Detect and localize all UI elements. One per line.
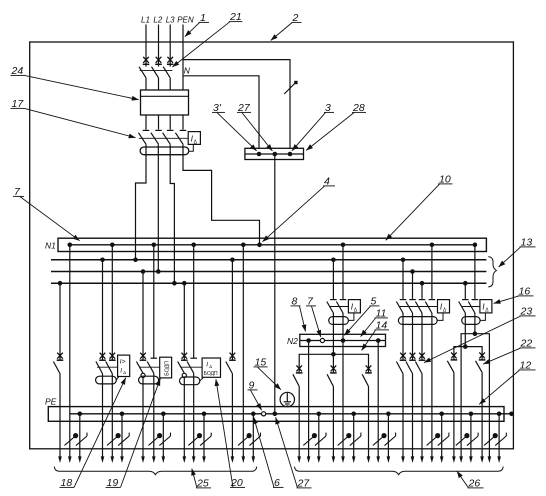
callout 14 (sub bar) (362, 320, 389, 351)
load arrow group4 L (183, 456, 187, 463)
node group4 L tap on L3 bus (182, 281, 187, 286)
wire PEN upper branch to link (183, 60, 290, 149)
wire RCD8 L drop (332, 260, 334, 299)
RCBO 18 linkage (97, 366, 118, 368)
wire L drop (464, 283, 466, 299)
phase busbar line L2 (51, 271, 486, 273)
svg-text:N: N (184, 65, 191, 75)
plug symbol N (484, 434, 497, 446)
wire N out of RCD jog to N1 (183, 144, 260, 245)
load arrow group4 N (192, 456, 196, 463)
outgoing group 4: switch + I-delta BODP device (178, 243, 221, 464)
callout 3 (bus 3 right node) (292, 102, 334, 151)
svg-text:L1: L1 (141, 16, 150, 25)
node PE to enclosure (509, 412, 514, 417)
linkage (462, 306, 480, 308)
blades (396, 302, 403, 314)
svg-text:L3: L3 (166, 16, 175, 25)
load arrows (480, 456, 484, 463)
sub distribution bar 14 (299, 352, 368, 373)
RCD8 linkage (330, 306, 348, 308)
node RCD8 L tap on L1 bus (331, 258, 336, 263)
busbar N2 (287, 334, 386, 346)
toroid (398, 317, 437, 325)
wire group3 PE drop (162, 414, 164, 457)
RCD8 box-to-toroid wire (348, 313, 354, 321)
callout 21 (main switch) (172, 11, 242, 67)
wire L3 to meter (169, 78, 171, 90)
wire L2 incoming (158, 25, 160, 67)
node group5 PE tap (251, 412, 256, 417)
brace left outgoing section (54, 467, 256, 475)
load arrow group3 PE (162, 456, 166, 463)
load arrows (367, 456, 371, 463)
load arrows (452, 456, 456, 463)
busbar N1 (58, 238, 486, 251)
wire group1 L drop (59, 283, 61, 360)
wire group5 N drop (242, 245, 244, 457)
plug symbol PE (315, 433, 326, 446)
switch blade group5 (226, 362, 233, 374)
load arrow group2 N (111, 456, 115, 463)
disconnect contact on L3 (167, 57, 174, 65)
node group1 PE tap (78, 412, 83, 417)
plug symbol N (338, 434, 351, 446)
switch blade (293, 374, 299, 386)
main RCD 17 toroid (140, 147, 189, 155)
callout 7 lower (N2 link circle) (306, 296, 321, 337)
node group5 N tap on N1 (241, 243, 246, 248)
node on bus 3 right (288, 152, 293, 157)
callout 27 lower (PE node) (276, 417, 312, 489)
N output (431, 313, 433, 457)
wire RCD8 N drop (342, 245, 344, 299)
wire group1 N drop (69, 245, 71, 457)
svg-text:БОДП: БОДП (165, 361, 171, 376)
wire L drop (481, 372, 483, 456)
node group2 L tap on L1 bus (100, 258, 105, 263)
svg-text:N1: N1 (45, 240, 56, 250)
RCD group 16 (2-pole right) (459, 243, 492, 347)
pole ticks (400, 299, 407, 301)
wire L drop (453, 372, 455, 456)
plug symbol group3 PE (159, 433, 170, 446)
callout 13 (phase lines brace) (499, 237, 536, 268)
node PE tap (439, 412, 444, 417)
main switch QS1 linkage (140, 70, 173, 72)
callout 10 (N1 bus right) (386, 174, 453, 241)
wire PE drop (498, 414, 500, 457)
disconnect contact group2 L (99, 353, 106, 361)
node group1 N tap on N1 (68, 243, 73, 248)
blades (459, 302, 466, 314)
load arrows (332, 456, 336, 463)
detachable link 21' on PE riser (284, 82, 296, 94)
load arrow group1 N (68, 456, 72, 463)
node group4 PE tap (202, 412, 207, 417)
wire group3 N drop (153, 245, 155, 358)
outgoing group 2: RCBO circuit (96, 243, 130, 464)
N bar of right group (461, 331, 489, 346)
plug symbol N (303, 434, 316, 446)
disconnect contact group3 L (140, 353, 147, 361)
L2 output with contact and blade (412, 313, 414, 360)
node PE tap (351, 412, 356, 417)
plug symbol N (373, 434, 386, 446)
plug symbol N (427, 434, 440, 446)
callout 11 (N2 conductor) (361, 308, 388, 337)
switch blade group1 (53, 362, 60, 374)
main earthing terminal 15 (280, 392, 294, 406)
callout 3' (bus 3 left node) (212, 102, 257, 151)
meter 24 (141, 90, 189, 115)
svg-text:I: I (206, 362, 208, 369)
toroid group3 (139, 376, 159, 384)
node L3 feed (172, 281, 177, 286)
wire L3 incoming (169, 25, 171, 67)
node N feed on N1 (257, 243, 262, 248)
sub outgoing group N2-2 (327, 341, 361, 464)
outgoing group 5: plain switched line (226, 243, 261, 464)
node L1 feed (133, 258, 138, 263)
BODP box 19 (160, 357, 172, 378)
sub outgoing group N2-1 (293, 341, 326, 464)
node L tap on L3 bus (463, 281, 468, 286)
plug symbol group2 N (107, 434, 120, 446)
load arrow group2 PE (120, 456, 124, 463)
contact tick group3 N (151, 357, 158, 359)
phase busbar line L1 (51, 259, 486, 261)
L3 output with contact and blade (421, 313, 423, 360)
wire L drop (298, 386, 300, 456)
disconnect contact (365, 365, 372, 373)
node on bar 14 (331, 352, 336, 357)
wire group4 N drop (193, 245, 195, 358)
svg-text:I>: I> (120, 359, 126, 366)
wire meter to RCD pole1 (145, 115, 147, 130)
wire L1 drop (402, 260, 404, 299)
node on L bar (463, 344, 468, 349)
node PE tap (497, 412, 502, 417)
callout 2 (enclosure) (271, 12, 302, 40)
wire N output to bar (474, 313, 476, 334)
load arrow group2 L (101, 456, 105, 463)
sub outgoing group N2-3 (362, 341, 395, 464)
L1 output with contact and blade (402, 313, 404, 360)
wire group5 PE drop (252, 414, 254, 457)
callout 22 (switch blade) (483, 338, 535, 365)
wire N drop (488, 346, 490, 457)
callout 17 (main RCD) (11, 98, 136, 138)
switch 19 linkage (139, 366, 160, 368)
node PE tap (386, 412, 391, 417)
load arrows (401, 456, 405, 463)
wire group1 PE drop (79, 414, 81, 457)
callout 25 (left outgoing brace) (192, 469, 211, 490)
RCD8 I-delta box (348, 300, 360, 313)
removable link circle on N2 (320, 338, 324, 342)
outgoing group 3: switch + BODP device (136, 243, 171, 464)
disconnect contact group1 (57, 353, 64, 361)
main RCD 17 blades (138, 133, 146, 145)
main RCD 17 I-delta box (188, 132, 200, 145)
removable link circle 9 on PE (262, 412, 266, 416)
callout 18 (RCBO) (60, 378, 126, 489)
node N2 right (376, 338, 381, 343)
wire PE drop (441, 414, 443, 457)
callout 26 (right outgoing brace) (457, 471, 484, 489)
node L3 tap (420, 281, 425, 286)
main RCD 17 box-to-toroid wire (189, 144, 194, 151)
svg-text:I: I (120, 368, 122, 375)
load arrows (297, 456, 301, 463)
wire L1 out of RCD jog (136, 144, 147, 260)
node N tap (430, 243, 435, 248)
switch 19 hinge circle (141, 373, 145, 377)
svg-text:L2: L2 (153, 16, 162, 25)
wire L1 to meter (145, 78, 147, 90)
linkage (400, 306, 438, 308)
I-delta box (438, 300, 450, 313)
node group2 N tap on N1 (110, 243, 115, 248)
wire meter to RCD pole2 (158, 115, 160, 130)
callout 4 (N connection to N1) (263, 176, 336, 242)
wire L output to bar (464, 313, 466, 347)
box-to-toroid wire group4 (200, 378, 204, 381)
load arrow group1 L (58, 456, 62, 463)
RCBO 18 blades (96, 362, 103, 374)
callout 6 (PE conductor) (254, 417, 284, 489)
node group5 L tap on L1 bus (230, 258, 235, 263)
plug symbol group5 N (238, 434, 251, 446)
node L2 feed (156, 269, 161, 274)
switch 20 blades (178, 362, 185, 374)
load arrow group3 L (141, 456, 145, 463)
switch blade (447, 361, 454, 373)
node PE tap (469, 412, 474, 417)
brace right outgoing section (295, 467, 504, 475)
plug symbol PE (350, 433, 361, 446)
wire N drop (474, 245, 476, 299)
wire L2 to meter (158, 78, 160, 90)
wire RCD8 L output (332, 313, 334, 354)
node L1 tap (401, 258, 406, 263)
node on bus 3 middle (273, 152, 278, 157)
disconnect contact (451, 352, 458, 360)
RCD8 blades (327, 302, 334, 314)
wire group5 L drop (231, 260, 233, 360)
wire L2 drop (412, 272, 414, 299)
I-delta box 16 (480, 300, 492, 313)
disconnect contact (479, 352, 486, 360)
load arrow group4 PE (202, 456, 206, 463)
wire PE drop (387, 414, 389, 457)
wire PE drop (318, 414, 320, 457)
callout 5 (N2 feed node) (344, 296, 379, 336)
wire meter to RCD pole3 (169, 115, 171, 130)
switch blade (327, 374, 333, 386)
node group3 L tap on L2 bus (141, 269, 146, 274)
node PE from bus 3 riser (273, 412, 278, 417)
wire PE drop (470, 414, 472, 457)
plug symbol group4 N (188, 434, 201, 446)
callout 27 (bus 3 node) (237, 102, 272, 151)
toroid (462, 317, 480, 325)
plug symbol group1 PE (76, 433, 87, 446)
wire RCD8 N output to N2 (342, 313, 344, 341)
wire group2 N drop (111, 245, 113, 360)
plug symbol group1 N (65, 434, 78, 446)
disconnect contact group4 L (181, 353, 188, 361)
svg-text:PE: PE (45, 396, 57, 406)
node PE tap (317, 412, 322, 417)
plug symbol PE (385, 433, 396, 446)
callout 15 (earthing terminal) (254, 357, 281, 390)
callout 16 (right RCD) (494, 286, 534, 304)
wire PE drop (353, 414, 355, 457)
wire N drop (431, 245, 433, 299)
load arrow group5 PE (252, 456, 256, 463)
node L2 tap (410, 269, 415, 274)
RCBO 18 toroid (96, 376, 117, 384)
node group1 L tap on L3 bus (58, 281, 63, 286)
svg-text:Δ: Δ (123, 370, 126, 375)
disconnect contact on L1 (143, 57, 150, 65)
svg-text:Δ: Δ (209, 364, 212, 369)
RCBO 18 box I> (118, 355, 130, 376)
main switch QS1 pole 1 blade (139, 67, 146, 78)
plug symbol group2 PE (118, 433, 129, 446)
callout 19 (BODP device) (106, 379, 161, 489)
outgoing group 1: line to loads (53, 243, 87, 464)
switch 19 blades (136, 362, 143, 374)
main switch QS1 pole 2 blade (152, 67, 159, 78)
plug symbol PE (438, 433, 449, 446)
switch blade (476, 361, 483, 373)
load arrow group1 PE (78, 456, 82, 463)
disconnect contact (296, 365, 303, 373)
svg-text:БОДП: БОДП (204, 371, 218, 377)
sub outgoing group R-1 (447, 347, 478, 463)
callout 8 (N2 bus left) (291, 296, 306, 332)
wire N drop through N2 (342, 341, 344, 457)
load arrow group5 N (242, 456, 246, 463)
callout 28 (bus 3 bar) (306, 102, 366, 150)
switch 20 hinge circle (182, 373, 186, 377)
wire L1 incoming (145, 25, 147, 67)
wire group4 L drop (183, 283, 185, 360)
callout 20 (I-delta BODP device) (216, 379, 245, 489)
svg-text:N2: N2 (287, 336, 298, 346)
brace 13 phase lines (488, 257, 496, 287)
disconnect contact on L2 (155, 57, 162, 65)
BODP box-to-toroid wire (158, 378, 161, 381)
plug symbol N (456, 434, 469, 446)
wire L3 drop (421, 283, 423, 299)
wire L2 out of RCD (157, 144, 159, 271)
plug symbol group4 PE (200, 433, 211, 446)
wire group3 L drop (142, 272, 144, 361)
wire bus 3 down to PE bus (274, 154, 276, 414)
disconnect contact group5 (229, 353, 236, 361)
wire meter to RCD pole4 (182, 115, 184, 130)
I-delta BODP box 20 (202, 358, 220, 377)
L bar of right group (454, 344, 482, 360)
node group3 N tap on N1 (152, 243, 157, 248)
wire N drop from N2 (308, 341, 310, 457)
load arrow group3 N (152, 456, 156, 463)
callout 1 (PEN line) (185, 12, 209, 37)
callout 12 (PE bus) (479, 360, 535, 405)
plug symbol group3 N (149, 434, 162, 446)
plug symbol group5 PE (249, 433, 260, 446)
node group2 PE tap (120, 412, 125, 417)
plug symbol PE (467, 433, 478, 446)
node N tap on N1 (473, 243, 478, 248)
wire L3 out of RCD jog (170, 144, 174, 283)
callout 24 (meter) (11, 65, 139, 100)
node group4 N tap on N1 (191, 243, 196, 248)
pole ticks (462, 299, 469, 301)
RCBO 18 box-to-toroid wire (116, 377, 119, 381)
node on bus 3 left (257, 152, 262, 157)
plug symbol PE (495, 433, 506, 446)
main RCD 17 linkage (139, 137, 188, 139)
callout 9 (PE link circle) (248, 380, 262, 411)
wire N drop from N2 (377, 341, 379, 457)
RCD8 toroid (329, 317, 349, 325)
wire group2 PE drop (121, 414, 123, 457)
RCD group 8 (2-pole with N2 bus) (327, 243, 361, 355)
switch blade (362, 374, 368, 386)
busbar 3 (N splitter bar) (245, 148, 304, 159)
phase busbar line L3 (51, 282, 486, 284)
disconnect contact group2 N (109, 353, 116, 361)
load arrow group5 L (231, 456, 235, 463)
box-to-toroid wire (437, 313, 443, 321)
sub outgoing group R-2 (476, 346, 507, 463)
wire N drop (460, 347, 462, 457)
wire L drop (332, 386, 334, 456)
node group3 PE tap (161, 412, 166, 417)
toroid group4 (180, 377, 200, 385)
RCD8 pole ticks (330, 299, 337, 301)
callout 23 (disconnect contacts) (424, 306, 536, 363)
main RCD 17 pole ticks (143, 129, 150, 131)
contact tick group4 N (190, 357, 197, 359)
wire group2 L drop (102, 260, 104, 360)
wire group4 PE drop (203, 414, 205, 457)
node on N bar (473, 331, 478, 336)
PE busbar (45, 396, 514, 421)
svg-text:PEN: PEN (177, 16, 194, 25)
switch 20 linkage (180, 366, 202, 368)
box-to-toroid wire (480, 313, 485, 321)
callout 7 (N1 bus) (13, 186, 80, 241)
enclosure box 2 (30, 42, 514, 449)
main switch QS1 pole 3 blade (163, 67, 170, 78)
disconnect contact (330, 365, 337, 373)
wire PEN incoming (182, 25, 184, 91)
wire L drop (368, 386, 370, 456)
RCD group 4-pole (three-phase outgoing) (396, 243, 449, 464)
node N2 left (306, 338, 311, 343)
wire N branch to bus 3 (183, 76, 259, 149)
node RCD8 N tap on N1 (341, 243, 346, 248)
node N2 feed (341, 338, 346, 343)
